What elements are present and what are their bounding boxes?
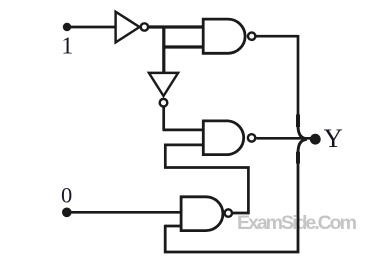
wire U1 output to U2 input A [149, 25, 204, 28]
wire feedback bottom to node Y [165, 152, 298, 252]
wire U2 feedback vertical to node Y [297, 35, 300, 127]
nand U4 (middle) [203, 121, 255, 155]
wire U5 input B [165, 225, 181, 228]
nand U2 (top) [203, 19, 255, 53]
wire IN0 to U5 input A [71, 211, 181, 214]
wire U4 input B feedback from U5 output [165, 145, 248, 213]
wire IN1 to U1 [71, 26, 116, 29]
svg-text:1: 1 [61, 33, 73, 59]
svg-text:0: 0 [61, 183, 72, 208]
node IN1 dot [63, 23, 71, 31]
wire U2 output horizontal [256, 35, 298, 38]
inverter U1 [116, 12, 148, 43]
node IN0 dot [62, 208, 72, 218]
wire U3 output to U4 input A [163, 107, 204, 130]
wire junction vertical [162, 27, 165, 73]
node Y dot [310, 134, 321, 145]
wire U4 output to node Y [256, 137, 311, 140]
nand U5 (bottom) [181, 197, 232, 231]
svg-text:Y: Y [324, 123, 343, 153]
inverter U3 (down) [149, 73, 178, 107]
wire junction to U2 input B [162, 45, 203, 48]
